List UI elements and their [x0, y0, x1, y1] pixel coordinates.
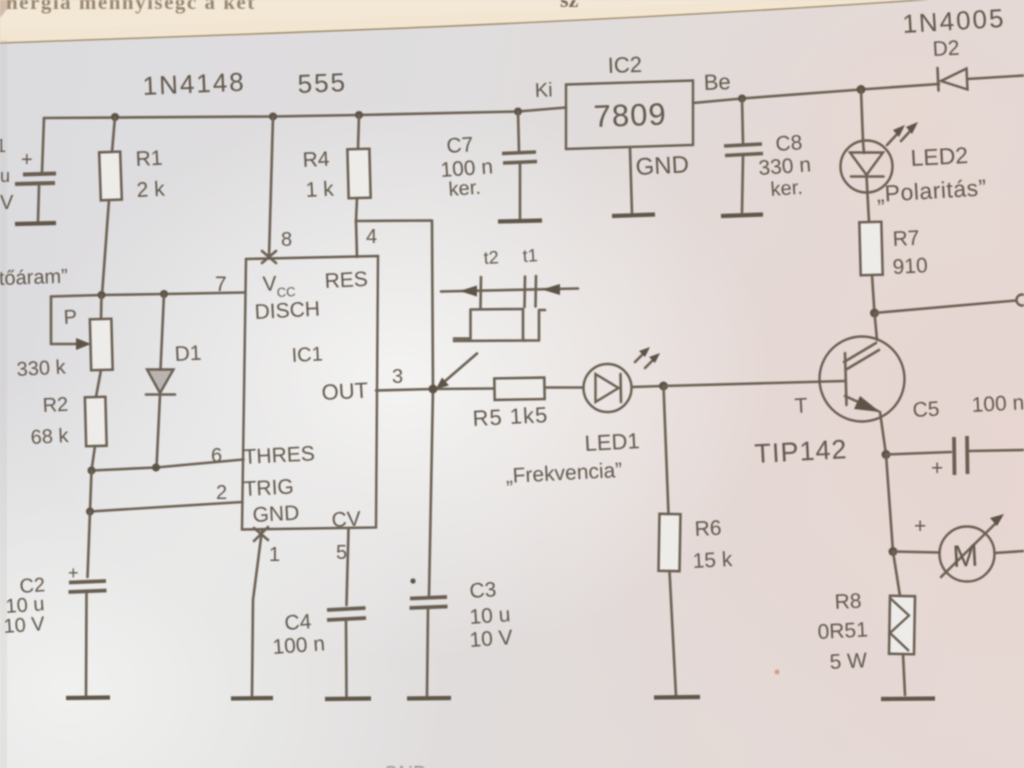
svg-text:910: 910: [892, 254, 928, 279]
wire pin 3 OUT: [376, 389, 495, 391]
svg-text:C4: C4: [284, 610, 313, 635]
wire R4 node to OUT node: [356, 221, 433, 390]
ground C8: [721, 215, 763, 217]
waveform timing symbol: [441, 276, 578, 341]
LED2 emission arrows: [887, 122, 918, 145]
svg-text:IC1: IC1: [291, 343, 323, 367]
wire pin 1: [252, 530, 262, 696]
svg-text:15 k: 15 k: [692, 548, 733, 573]
wire pin 4: [356, 221, 357, 257]
svg-text:R6: R6: [694, 517, 722, 541]
svg-text:sz: sz: [560, 0, 579, 12]
svg-text:V: V: [262, 272, 277, 296]
capacitor C8: [724, 99, 763, 213]
wire IC2 GND pin: [630, 148, 632, 214]
svg-text:330 n: 330 n: [758, 153, 812, 180]
svg-text:R8: R8: [834, 590, 862, 614]
terminal circle right edge: [1017, 295, 1024, 306]
svg-text:3: 3: [392, 366, 403, 388]
svg-text:GND: GND: [383, 763, 427, 768]
junction rail-C7: [514, 108, 522, 116]
junction pin7-pot: [98, 291, 106, 299]
ground C1: [15, 223, 56, 224]
svg-text:0R51: 0R51: [817, 618, 868, 644]
svg-text:u: u: [0, 166, 10, 186]
svg-text:„Polaritás”: „Polaritás”: [876, 174, 988, 207]
wire top supply rail: [44, 108, 566, 119]
capacitor C2: [68, 512, 107, 696]
resistor R2: [85, 397, 107, 471]
ground R8: [881, 696, 935, 701]
label Vcc: [262, 272, 296, 300]
svg-text:555: 555: [297, 67, 348, 99]
resistor R7: [859, 222, 882, 313]
wire emitter node down: [886, 455, 893, 552]
junction emitter-C5 node: [882, 450, 891, 459]
junction rail-R4: [355, 111, 363, 119]
svg-text:GND: GND: [635, 151, 690, 181]
resistor R8: [889, 552, 915, 696]
junction rail-R1: [111, 113, 119, 121]
svg-text:D1: D1: [174, 342, 202, 366]
wire collector node to right terminal: [875, 301, 1017, 314]
svg-text:t2: t2: [483, 247, 499, 268]
svg-text:T: T: [794, 394, 808, 418]
svg-text:+: +: [68, 563, 79, 583]
wire pin 2: [90, 502, 243, 512]
LED LED2: [841, 90, 893, 223]
svg-text:1: 1: [269, 544, 280, 566]
svg-text:Be: Be: [703, 69, 731, 95]
svg-text:TRIG: TRIG: [243, 475, 294, 501]
svg-text:R4: R4: [302, 148, 330, 172]
svg-text:THRES: THRES: [243, 442, 315, 469]
svg-text:5 W: 5 W: [829, 649, 868, 674]
motor M: [893, 514, 1024, 582]
svg-text:10 V: 10 V: [3, 613, 46, 638]
capacitor C1: [15, 118, 56, 221]
svg-text:C5: C5: [912, 398, 940, 422]
svg-text:1 k: 1 k: [305, 178, 335, 202]
svg-text:4: 4: [366, 226, 377, 248]
junction D1-pin6: [152, 464, 160, 472]
svg-text:100 n: 100 n: [971, 391, 1024, 417]
LED LED1: [584, 364, 664, 412]
svg-text:R1: R1: [135, 147, 163, 171]
svg-text:V: V: [0, 192, 14, 214]
svg-text:OUT: OUT: [321, 378, 369, 405]
svg-text:6: 6: [211, 445, 222, 467]
svg-text:330 k: 330 k: [16, 356, 67, 381]
capacitor C7: [502, 112, 537, 221]
junction motor node: [889, 547, 898, 556]
svg-text:DISCH: DISCH: [254, 298, 320, 324]
svg-text:TIP142: TIP142: [754, 434, 849, 469]
capacitor C4: [327, 529, 366, 696]
junction R7-collector node: [870, 309, 879, 318]
wire LED1 node to base: [664, 381, 846, 386]
ground R6: [654, 695, 700, 700]
junction pin2-C2: [86, 508, 94, 516]
pin 8 cross mark: [262, 251, 276, 263]
svg-text:R7: R7: [892, 227, 920, 251]
ground pin 1: [231, 696, 273, 701]
svg-text:1N4148: 1N4148: [142, 67, 246, 101]
svg-text:1N4005: 1N4005: [902, 3, 1007, 39]
svg-text:R5 1k5: R5 1k5: [472, 402, 549, 431]
resistor R5: [494, 378, 583, 400]
wire Be rail: [693, 84, 939, 103]
svg-text:8: 8: [281, 229, 292, 251]
wire pin 8: [269, 117, 273, 258]
junction LED1-R6 node: [659, 382, 668, 391]
resistor R1: [99, 117, 122, 295]
svg-text:C7: C7: [446, 133, 474, 158]
wire pin 7: [51, 293, 245, 297]
junction OUT node: [429, 385, 438, 394]
ground IC2: [612, 215, 655, 217]
wire pin6 node down: [90, 471, 92, 512]
svg-text:2: 2: [216, 482, 227, 504]
svg-text:„Frekvencia”: „Frekvencia”: [505, 459, 623, 488]
svg-text:M: M: [952, 538, 980, 574]
capacitor C5: [886, 436, 1024, 480]
svg-text:R2: R2: [42, 394, 69, 417]
svg-text:Ki: Ki: [534, 79, 553, 102]
potentiometer P: [51, 295, 113, 397]
junction Be-C8: [738, 95, 746, 103]
svg-text:t1: t1: [522, 245, 538, 266]
svg-text:CV: CV: [331, 507, 361, 531]
capacitor C3: [410, 389, 448, 696]
svg-text:nergia mennyiségc a ket: nergia mennyiségc a ket: [6, 0, 256, 14]
svg-text:7809: 7809: [593, 96, 667, 134]
svg-text:1: 1: [0, 136, 6, 156]
svg-text:ker.: ker.: [770, 177, 804, 201]
svg-text:10 V: 10 V: [469, 626, 514, 652]
diode D1: [146, 294, 175, 468]
ground C2: [66, 695, 110, 700]
svg-text:+: +: [931, 457, 943, 480]
svg-text:5: 5: [336, 542, 347, 564]
junction Be-LED2: [857, 85, 866, 94]
ground C7: [498, 221, 542, 222]
svg-text:LED1: LED1: [584, 428, 640, 456]
transistor Q TIP142: [820, 313, 905, 455]
svg-text:100 n: 100 n: [272, 632, 326, 659]
svg-text:D2: D2: [932, 37, 960, 61]
svg-text:töltőáram”: töltőáram”: [0, 266, 68, 291]
svg-text:ker.: ker.: [448, 177, 482, 201]
resistor R4: [347, 115, 370, 221]
svg-text:IC2: IC2: [607, 52, 642, 78]
svg-text:C8: C8: [775, 131, 803, 156]
svg-text:CC: CC: [276, 284, 296, 300]
ground C3: [407, 696, 451, 701]
regulator IC2 7809: [566, 81, 693, 150]
pin 1 cross mark: [254, 527, 268, 541]
LED1 emission arrows: [635, 347, 660, 368]
diode D2: [938, 68, 1024, 91]
svg-text:GND: GND: [252, 502, 300, 527]
annotation arrow to OUT node: [436, 354, 477, 390]
wire pin 6: [92, 460, 244, 471]
svg-text:C3: C3: [469, 578, 497, 603]
svg-text:P: P: [63, 306, 77, 329]
svg-text:LED2: LED2: [910, 142, 969, 171]
svg-text:10 u: 10 u: [469, 603, 511, 629]
junction rail-pin8: [269, 113, 277, 121]
ground C4: [325, 696, 371, 701]
resistor R6: [658, 386, 680, 696]
junction pin7-D1: [160, 290, 168, 298]
svg-text:68 k: 68 k: [30, 425, 70, 449]
svg-text:+: +: [914, 515, 926, 538]
label C1 partial: [0, 136, 14, 214]
junction R2-pin6: [88, 467, 96, 475]
op IC1 555 box: [242, 256, 378, 530]
svg-text:+: +: [21, 149, 33, 171]
PHOTO-BG: [0, 0, 935, 43]
svg-text:2 k: 2 k: [136, 178, 166, 202]
svg-text:RES: RES: [324, 268, 368, 293]
